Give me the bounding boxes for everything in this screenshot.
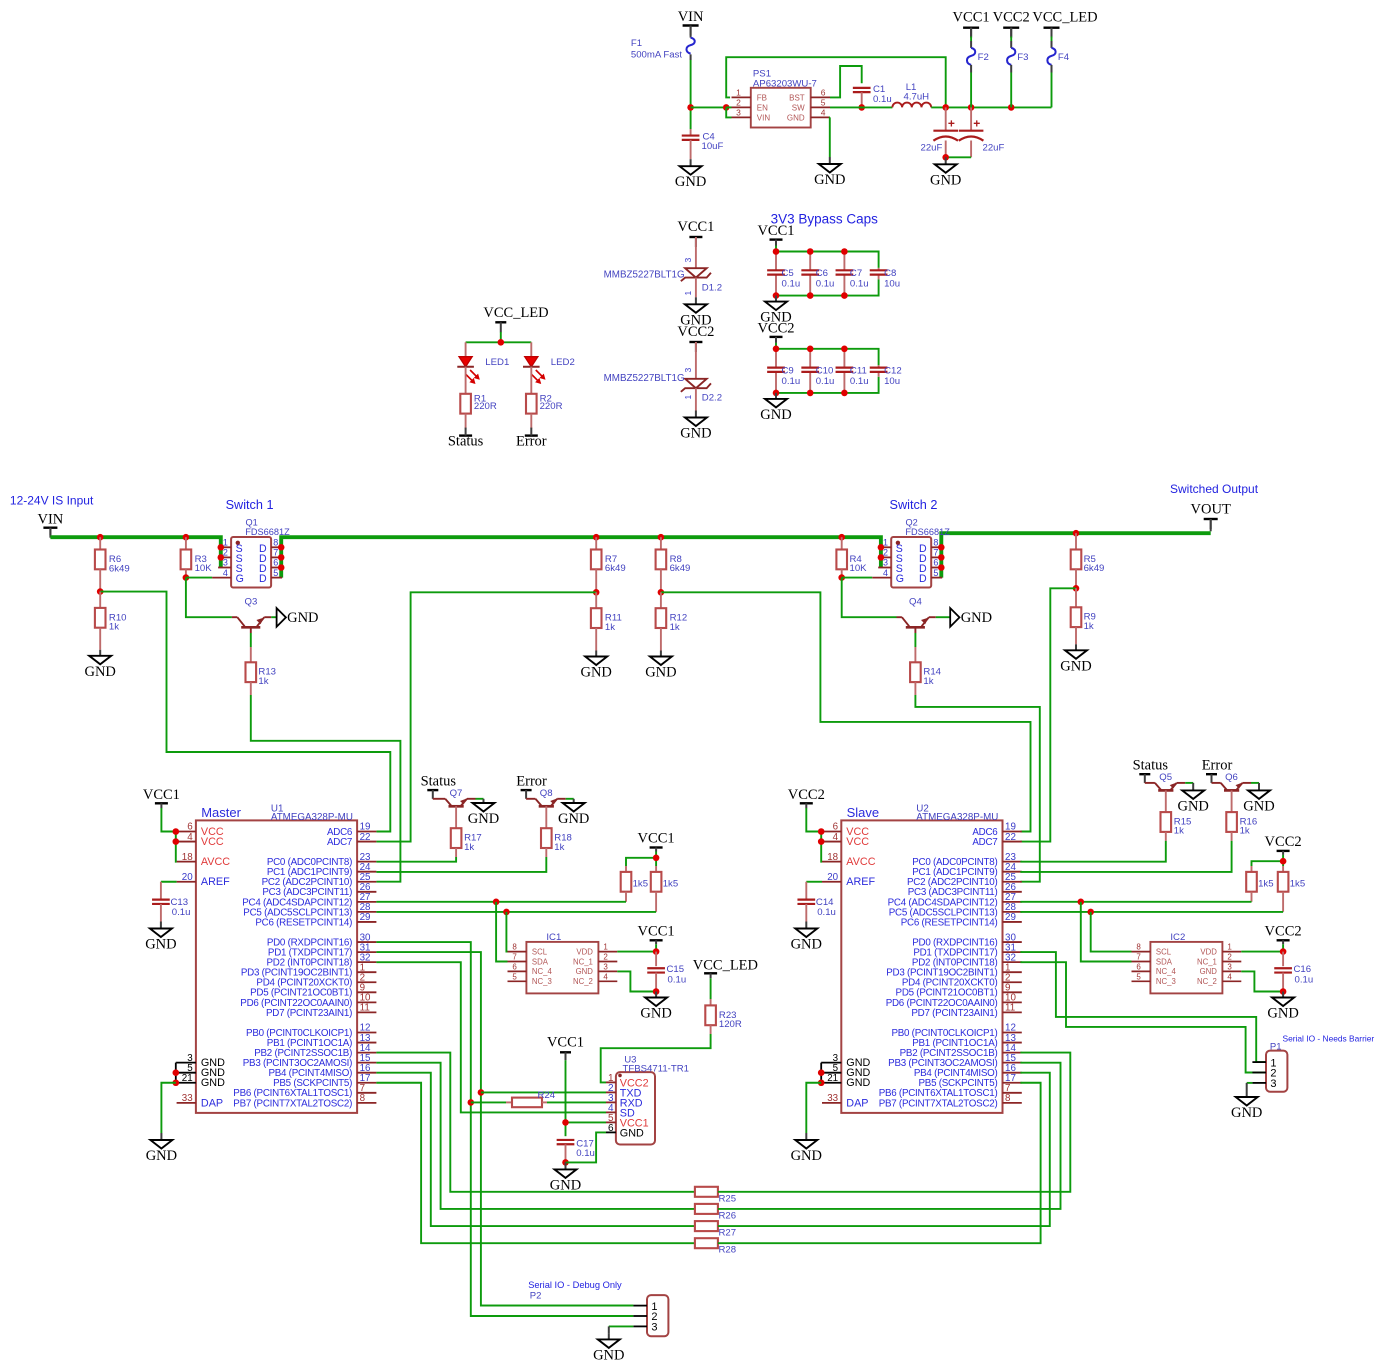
junction RXD node [468, 1099, 475, 1106]
svg-text:VCC_LED: VCC_LED [1032, 10, 1097, 26]
svg-text:0.1u: 0.1u [668, 975, 687, 986]
svg-text:GND: GND [558, 811, 589, 827]
wire Q3 emitter to GND flag [271, 616, 276, 618]
wire GND pins to ground [806, 1083, 821, 1133]
svg-text:1k: 1k [1084, 621, 1094, 632]
svg-text:0.1u: 0.1u [1295, 975, 1314, 986]
wire IS1 sense to Master ADC6 [100, 592, 390, 832]
resistor R2 220R [526, 394, 563, 429]
wire BST to C1 [830, 66, 862, 97]
comment Serial IO - Needs Barrier [1283, 1034, 1375, 1044]
junction rail at R8 [658, 534, 665, 541]
wire Master PC4 to SDA and pullup [376, 901, 626, 903]
wire AREF to cap [161, 881, 177, 883]
svg-text:F4: F4 [1058, 52, 1070, 63]
svg-text:VCC1: VCC1 [638, 831, 675, 847]
svg-text:PC6 (RESETPCINT14): PC6 (RESETPCINT14) [901, 917, 998, 928]
wire bypass bottom rail [776, 279, 879, 295]
svg-text:10u: 10u [884, 376, 900, 387]
wire Master PB5 to R28 [376, 1083, 695, 1243]
svg-text:0.1u: 0.1u [873, 94, 892, 105]
svg-text:7: 7 [512, 953, 517, 962]
svg-text:Serial IO - Needs Barrier: Serial IO - Needs Barrier [1283, 1034, 1375, 1044]
svg-text:10u: 10u [884, 279, 900, 290]
svg-text:TFBS4711-TR1: TFBS4711-TR1 [623, 1063, 689, 1074]
capacitor 22uF (first) [921, 107, 959, 157]
svg-text:F3: F3 [1017, 52, 1028, 63]
svg-text:Q2: Q2 [906, 518, 918, 528]
svg-text:G: G [896, 573, 904, 585]
junction Q2 drain pins [938, 544, 945, 571]
net port Error (LED2) [516, 428, 547, 450]
svg-text:VCC2: VCC2 [757, 320, 794, 336]
capacitor C4 10uF [682, 129, 724, 159]
svg-text:29: 29 [360, 912, 371, 923]
junction pullup VCC node [653, 855, 660, 862]
junction R3/gate node [183, 574, 190, 581]
power flag VCC_LED with fuse F4 [1032, 10, 1097, 108]
comment Switched Output [1170, 482, 1259, 496]
power flag VOUT (switched output) [1191, 502, 1231, 530]
svg-text:3: 3 [223, 558, 228, 568]
junction pullup VCC node [1280, 858, 1287, 865]
capacitor C17 0.1u [557, 1138, 595, 1162]
wire GND pins tie [175, 1063, 178, 1083]
ground below AREF cap [791, 922, 822, 953]
ground flag at Q3 [277, 608, 319, 627]
wire divider to Slave ADC7 [1020, 588, 1076, 841]
svg-text:0.1u: 0.1u [850, 376, 869, 387]
svg-text:Q5: Q5 [1159, 772, 1172, 783]
svg-text:3: 3 [1227, 962, 1232, 971]
svg-text:Switched Output: Switched Output [1170, 482, 1259, 496]
ground below C15 [640, 992, 671, 1022]
svg-text:GND: GND [814, 172, 845, 188]
svg-text:VIN: VIN [38, 512, 64, 528]
svg-text:0.1u: 0.1u [782, 279, 801, 290]
junction Q1 drain pins [278, 544, 285, 571]
svg-text:4: 4 [821, 107, 826, 117]
svg-text:10K: 10K [195, 563, 213, 574]
transistor Q7 (status driver) [433, 788, 476, 807]
svg-text:5: 5 [821, 97, 826, 107]
svg-text:R27: R27 [719, 1228, 737, 1239]
wire R24 to U3 RXD [547, 1101, 606, 1103]
resistor R16 1k [1226, 790, 1257, 841]
svg-text:D2.2: D2.2 [702, 392, 722, 403]
svg-text:0.1u: 0.1u [817, 907, 836, 918]
wire P2 pin1 TXD [481, 1305, 633, 1307]
svg-text:Q7: Q7 [450, 788, 463, 799]
svg-text:29: 29 [1005, 912, 1016, 923]
power flag VCC2 above pullups [1265, 834, 1302, 855]
wire GND pins to ground [161, 1083, 175, 1133]
ground below 22uF [930, 157, 961, 188]
svg-text:10K: 10K [850, 563, 868, 574]
wire Q4 emitter to GND flag [936, 616, 950, 618]
svg-text:22: 22 [360, 832, 371, 843]
transistor Q5 (status driver) [1145, 772, 1185, 791]
resistor R4 10K [836, 537, 867, 577]
wire Master PB3 to R26 [376, 1063, 695, 1209]
svg-text:IC1: IC1 [546, 932, 561, 943]
power flag VCC2 at IC2 VDD [1265, 923, 1302, 944]
resistor R17 1k [451, 806, 482, 857]
wire AREF to cap [806, 881, 822, 883]
wire thick bus Q1 drains to Q2 sources [281, 537, 881, 577]
svg-text:PB7 (PCINT7XTAL2TOSC2): PB7 (PCINT7XTAL2TOSC2) [233, 1098, 352, 1109]
svg-text:6k49: 6k49 [670, 563, 691, 574]
junction EN node [723, 104, 730, 111]
wire Master PD2 to SD [376, 962, 606, 1112]
svg-text:GND: GND [593, 1347, 624, 1363]
power flag VCC2 above bypass bank [757, 320, 794, 343]
ground below P2 [593, 1333, 624, 1363]
svg-text:AREF: AREF [201, 876, 230, 888]
wire Slave PD2 to P1 pin 2 [1020, 962, 1266, 1072]
power flag VCC1 at IC1 VDD [638, 923, 675, 944]
svg-text:C9: C9 [782, 365, 794, 376]
power flag VCC2 above D2.2 [677, 324, 714, 352]
svg-text:AP63203WU-7: AP63203WU-7 [753, 79, 817, 90]
svg-text:ADC7: ADC7 [972, 837, 997, 848]
svg-text:4: 4 [833, 832, 839, 843]
junction VOUT sense divider node [1073, 585, 1080, 592]
junction GND pins [818, 1069, 825, 1086]
svg-text:11: 11 [1005, 1003, 1015, 1014]
svg-text:LED1: LED1 [485, 357, 509, 368]
svg-text:3: 3 [883, 558, 888, 568]
wire Slave PC4 to SDA and pullup [1020, 901, 1251, 903]
wire P2 pin 3 to ground [609, 1326, 634, 1333]
svg-text:GND: GND [84, 664, 115, 680]
svg-text:D1.2: D1.2 [702, 283, 722, 294]
junction VIN rail at R3 [183, 534, 190, 541]
svg-text:Master: Master [201, 805, 241, 820]
svg-text:VCC2: VCC2 [993, 10, 1030, 26]
svg-text:GND: GND [576, 967, 594, 976]
capacitor C1 0.1u [853, 84, 892, 107]
junction PC4 wire [493, 899, 500, 906]
svg-text:1: 1 [1227, 943, 1232, 952]
svg-text:GND: GND [645, 665, 676, 681]
wire U3 GND pin to ground [566, 1132, 607, 1162]
resistor R11 1k [591, 592, 622, 650]
svg-text:VCC1: VCC1 [953, 10, 990, 26]
svg-text:4: 4 [1227, 972, 1232, 981]
junction IS1-load divider node [593, 589, 600, 596]
svg-text:8: 8 [512, 943, 517, 952]
svg-text:10uF: 10uF [702, 141, 724, 152]
comment 12-24V IS Input [10, 494, 94, 508]
svg-text:R28: R28 [719, 1245, 737, 1256]
resistor R7 6k49 [591, 537, 626, 592]
resistor R6 6k49 [95, 537, 130, 591]
resistor R8 6k49 [656, 537, 691, 592]
power flag VCC_LED above LEDs [483, 305, 548, 332]
svg-text:VCC1: VCC1 [757, 223, 794, 239]
svg-text:FB: FB [757, 93, 767, 102]
wire TXD to U3 [481, 1091, 606, 1093]
svg-text:1k5: 1k5 [633, 879, 648, 890]
junction 3V3 rail nodes [942, 104, 1014, 111]
svg-text:4: 4 [187, 832, 193, 843]
power flag VCC2 with fuse F3 [993, 10, 1030, 108]
inductor L1 4.7uH [892, 82, 931, 107]
svg-text:VCC2: VCC2 [788, 787, 825, 803]
resistor R13 1k [246, 647, 277, 695]
wire VDD pin of IC2 [1241, 944, 1283, 951]
svg-text:1k: 1k [1240, 826, 1250, 837]
svg-text:C8: C8 [884, 268, 896, 279]
net port Error at Q6 [1202, 758, 1233, 775]
svg-text:20: 20 [827, 872, 838, 883]
svg-text:GND: GND [846, 1077, 870, 1089]
ground below R12 [645, 651, 676, 681]
svg-text:1: 1 [736, 87, 741, 97]
svg-text:33: 33 [827, 1093, 838, 1104]
svg-text:PC6 (RESETPCINT14): PC6 (RESETPCINT14) [255, 917, 352, 928]
svg-text:MMBZ5227BLT1G: MMBZ5227BLT1G [604, 373, 685, 384]
comment Switch 1 [226, 498, 274, 512]
svg-text:+: + [973, 117, 980, 131]
svg-text:GND: GND [1177, 798, 1208, 814]
svg-text:Switch 1: Switch 1 [226, 498, 274, 512]
ground below AREF cap [145, 922, 176, 953]
capacitor AREF 0.1u [152, 882, 170, 922]
svg-text:0.1u: 0.1u [172, 907, 191, 918]
svg-text:VCC2: VCC2 [1265, 923, 1302, 939]
wire P1 pin 3 to ground [1247, 1083, 1253, 1090]
svg-text:GND: GND [1060, 658, 1091, 674]
svg-text:DAP: DAP [846, 1097, 868, 1109]
svg-text:+: + [948, 117, 955, 131]
svg-text:ADC7: ADC7 [327, 837, 352, 848]
ground at Q5 [1177, 783, 1208, 815]
svg-text:ATMEGA328P-MU: ATMEGA328P-MU [271, 812, 353, 823]
ground at Q7 [468, 799, 499, 827]
wire GND pin of IC1 [617, 971, 656, 991]
ground below R9 [1060, 644, 1091, 674]
junction Slave PC4 wire [1078, 899, 1085, 906]
fuse F1 500mA Fast [631, 26, 695, 61]
wire R25 to Slave PB2 [718, 1053, 1070, 1192]
capacitor 22uF (second) [959, 107, 1005, 157]
wire R14 to Slave PC2 [915, 695, 1039, 882]
wire bypass bottom rail [776, 377, 879, 393]
wire VDD pin of IC1 [617, 944, 656, 951]
ground below R10 [84, 650, 115, 680]
resistor R10 1k [95, 592, 127, 650]
svg-text:22uF: 22uF [983, 143, 1005, 154]
resistor R18 1k [541, 806, 572, 857]
svg-text:1k5: 1k5 [663, 879, 678, 890]
power flag VCC1 above bypass bank [757, 223, 794, 246]
svg-text:VOUT: VOUT [1191, 502, 1231, 518]
power flag VCC2 at MCU [788, 787, 825, 808]
net port Status at Q5 [1133, 758, 1169, 775]
svg-text:2: 2 [736, 97, 741, 107]
wire VIN to junction and C4 [690, 60, 692, 129]
svg-text:0.1u: 0.1u [816, 376, 835, 387]
LED LED1 [457, 342, 509, 394]
svg-text:5: 5 [933, 568, 938, 578]
capacitor C9 0.1u [767, 349, 800, 393]
svg-text:6: 6 [608, 1123, 614, 1134]
wire Master PD1 to TXD column [376, 952, 633, 1306]
resistor R23 120R [705, 978, 742, 1034]
svg-text:3: 3 [683, 368, 693, 373]
junction bypass rail nodes [773, 346, 848, 397]
svg-text:Q4: Q4 [909, 597, 922, 608]
svg-text:Slave: Slave [847, 805, 880, 820]
transistor Q4 (gate pull-down driver) [897, 597, 936, 634]
wire R3 to Q1 gate [186, 577, 212, 579]
wire R16 to Slave PC1 [1020, 841, 1231, 872]
junction VIN node [687, 104, 694, 111]
ground below P1 [1231, 1090, 1262, 1121]
svg-text:P2: P2 [530, 1291, 542, 1302]
junction VCC pins [818, 828, 825, 845]
svg-text:4: 4 [603, 972, 608, 981]
svg-text:G: G [236, 573, 244, 585]
wire VCC_LED to LED1 and LED2 [466, 332, 532, 342]
net port Status at Q7 [421, 774, 457, 791]
svg-text:PD7 (PCINT23AIN1): PD7 (PCINT23AIN1) [911, 1008, 997, 1019]
junction VDD node IC1 [653, 948, 660, 955]
ground below C16 [1267, 992, 1298, 1022]
resistor 1k5 (SCL pullup) [1278, 866, 1305, 912]
svg-text:3: 3 [603, 962, 608, 971]
svg-text:12-24V IS Input: 12-24V IS Input [10, 494, 94, 508]
svg-text:6k49: 6k49 [605, 563, 626, 574]
resistor 1k5 (SDA pullup) [1246, 866, 1273, 902]
svg-text:8: 8 [933, 538, 938, 548]
svg-text:Error: Error [516, 434, 547, 450]
svg-text:18: 18 [182, 852, 193, 863]
junction Q2 source pins [878, 544, 885, 561]
zener diode D2.2 MMBZ5227BLT1G [604, 342, 722, 411]
svg-text:0.1u: 0.1u [782, 376, 801, 387]
svg-text:PB7 (PCINT7XTAL2TOSC2): PB7 (PCINT7XTAL2TOSC2) [879, 1098, 998, 1109]
wire Q5 emitter to ground [1185, 782, 1193, 784]
wire R15 to Slave PC0 [1020, 841, 1165, 862]
wire Master PB4 to R27 [376, 1073, 695, 1226]
resistor R28 [695, 1238, 736, 1256]
wire VIN junction to PS1 EN junction [691, 106, 727, 108]
svg-text:2: 2 [603, 953, 608, 962]
capacitor C8 10u [870, 268, 900, 290]
capacitor AREF 0.1u [797, 882, 815, 922]
ground below D2.2 [680, 411, 711, 442]
svg-text:GND: GND [145, 937, 176, 953]
svg-text:3: 3 [1270, 1078, 1276, 1090]
resistor R15 1k [1161, 790, 1192, 841]
wire L1 to 3V3 rail [931, 106, 1051, 108]
capacitor C12 10u [870, 365, 902, 387]
wire VCC supply to VCC pins [806, 808, 822, 862]
junction VDD node IC2 [1280, 948, 1287, 955]
net port Error at Q8 [516, 774, 547, 791]
wire PC5 branch to IC1 SCL [506, 912, 507, 952]
transistor Q1 FDS6681Z (high-side switch 1) [212, 518, 290, 588]
svg-text:GND: GND [1231, 1105, 1262, 1121]
svg-text:1k: 1k [1174, 826, 1184, 837]
wire Slave PD1 to P1 pin 1 [1020, 952, 1266, 1062]
svg-text:33: 33 [182, 1093, 193, 1104]
comment 3V3 Bypass Caps [771, 212, 879, 227]
svg-text:C10: C10 [816, 365, 834, 376]
power flag VCC_LED above R23 [693, 958, 758, 979]
wire EN/VIN tie [726, 107, 731, 117]
comment Switch 2 [890, 498, 938, 512]
svg-text:7: 7 [933, 548, 938, 558]
wire Q8 emitter to ground [566, 798, 574, 800]
svg-text:GND: GND [146, 1148, 177, 1164]
svg-text:D: D [259, 573, 267, 585]
wire PC4 branch to IC2 SDA [1081, 902, 1132, 962]
svg-text:0.1u: 0.1u [576, 1148, 595, 1159]
junction GND pins [173, 1069, 180, 1086]
junction IS1 divider node [97, 588, 104, 595]
svg-text:3: 3 [651, 1322, 657, 1334]
wire GND pin of IC2 [1241, 971, 1283, 991]
svg-text:GND: GND [640, 1006, 671, 1022]
svg-text:6k49: 6k49 [109, 563, 130, 574]
svg-text:11: 11 [360, 1003, 370, 1014]
resistor R24 [506, 1090, 556, 1107]
svg-text:1k5: 1k5 [1258, 879, 1273, 890]
svg-text:NC_4: NC_4 [1156, 967, 1177, 976]
svg-text:NC_3: NC_3 [532, 977, 552, 986]
junction VIN rail at R6 [97, 534, 104, 541]
svg-text:6: 6 [273, 558, 278, 568]
svg-text:AREF: AREF [846, 876, 875, 888]
svg-text:C6: C6 [816, 268, 828, 279]
wire Q7 emitter to ground [476, 798, 484, 800]
svg-text:6: 6 [933, 558, 938, 568]
svg-text:22: 22 [1005, 832, 1016, 843]
svg-text:500mA Fast: 500mA Fast [631, 50, 683, 61]
ground below R11 [580, 651, 611, 681]
svg-text:C7: C7 [850, 268, 862, 279]
resistor R12 1k [656, 592, 688, 650]
wire thick bus VIN to Q1 sources [50, 537, 220, 567]
svg-text:NC_1: NC_1 [573, 957, 593, 966]
junction ground node IC1 [653, 988, 660, 995]
svg-text:GND: GND [1243, 798, 1274, 814]
svg-text:220R: 220R [474, 401, 497, 412]
op-amp IC1 (I2C isolator) [508, 932, 618, 993]
junction VCC1/U3 pin5 [562, 1119, 569, 1126]
resistor R3 10K [181, 537, 213, 577]
wire Master PC5 to SCL and pullup [376, 911, 656, 913]
resistor R14 1k [910, 647, 942, 695]
svg-text:SDA: SDA [532, 957, 549, 966]
junction ground node IC2 [1280, 988, 1287, 995]
svg-text:DAP: DAP [201, 1097, 223, 1109]
svg-text:VIN: VIN [757, 113, 771, 122]
svg-text:C5: C5 [782, 268, 794, 279]
junction TXD node [478, 1089, 485, 1096]
svg-text:1k: 1k [258, 676, 268, 687]
wire Slave PC5 to SCL and pullup [1020, 911, 1283, 913]
svg-text:VCC_LED: VCC_LED [693, 958, 758, 974]
svg-text:2: 2 [1227, 953, 1232, 962]
wire divider to Slave ADC6 [661, 592, 1031, 831]
svg-text:6: 6 [1136, 962, 1141, 971]
svg-text:NC_2: NC_2 [573, 977, 593, 986]
